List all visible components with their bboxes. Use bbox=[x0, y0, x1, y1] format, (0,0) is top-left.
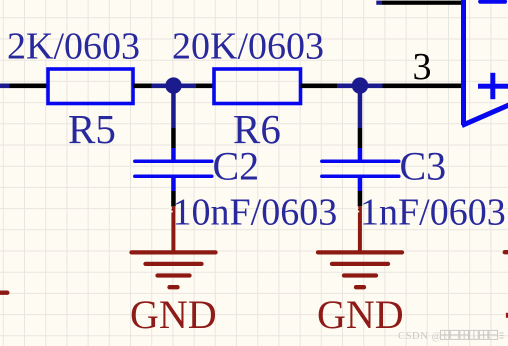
op-amp plus input mark bbox=[478, 73, 508, 99]
svg-text:CSDN @: CSDN @ bbox=[398, 331, 442, 342]
op-amp minus input mark bbox=[480, 0, 505, 4]
wire: node A to R6 bbox=[182, 84, 215, 89]
op-amp left edge bbox=[461, 0, 466, 125]
op-amp U1 (partial) bbox=[462, 0, 508, 126]
svg-text:1nF/0603: 1nF/0603 bbox=[360, 192, 506, 234]
ground GND1 bars bbox=[132, 252, 216, 287]
wire: R6 to node B bbox=[301, 84, 353, 89]
svg-text:GND: GND bbox=[130, 292, 217, 337]
svg-text:3: 3 bbox=[413, 46, 432, 88]
capacitor C3 bbox=[322, 161, 399, 176]
junction node B bbox=[352, 77, 368, 93]
svg-text:20K/0603: 20K/0603 bbox=[172, 26, 324, 68]
ground GND2 bars bbox=[318, 252, 402, 287]
svg-text:R5: R5 bbox=[68, 106, 116, 152]
resistor R6 bbox=[214, 69, 301, 104]
capacitor C2 bbox=[135, 161, 212, 176]
wire: node A down to C2 bbox=[171, 93, 176, 160]
ground bar fragment at right edge bbox=[505, 250, 508, 254]
wire: R5 to node A bbox=[133, 84, 166, 89]
wire: node B down to C3 bbox=[358, 93, 363, 160]
svg-text:C2: C2 bbox=[213, 144, 260, 189]
wire: C3 to ground bbox=[358, 178, 363, 206]
ground bar fragment at left edge bbox=[0, 291, 7, 295]
ground GND2 stem bbox=[358, 206, 362, 252]
watermark bbox=[398, 331, 442, 342]
wire: left input segment bbox=[0, 84, 48, 89]
ground GND1 stem bbox=[171, 206, 175, 252]
wire: C2 to ground bbox=[171, 178, 176, 206]
svg-text:GND: GND bbox=[317, 292, 404, 337]
ground label fragment at right edge bbox=[506, 313, 508, 318]
junction node A bbox=[165, 77, 181, 93]
svg-text:2K/0603: 2K/0603 bbox=[7, 26, 140, 68]
svg-text:10nF/0603: 10nF/0603 bbox=[173, 192, 338, 234]
wire: top feedback to op-amp pin 2 bbox=[376, 1, 461, 5]
op-amp bottom diagonal bbox=[462, 95, 508, 126]
watermark CJK glyph boxes bbox=[441, 330, 504, 339]
resistor R5 bbox=[48, 69, 133, 104]
svg-text:C3: C3 bbox=[400, 144, 447, 189]
wire: node B to op-amp pin 3 bbox=[368, 84, 462, 89]
